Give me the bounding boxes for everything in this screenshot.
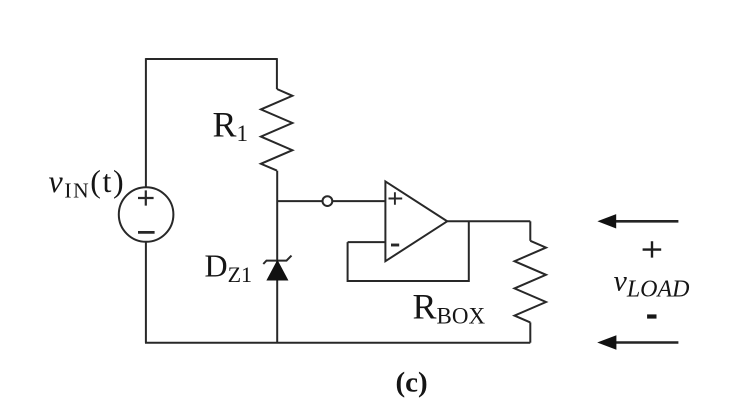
wire left vertical lower bbox=[145, 242, 147, 343]
zener diode DZ1 triangle bbox=[267, 261, 287, 280]
wire RBOX top stub bbox=[529, 221, 531, 241]
wire op-amp output bbox=[447, 220, 530, 222]
wire R1 top stub bbox=[276, 58, 278, 89]
svg-text:R1: R1 bbox=[213, 104, 249, 146]
svg-text:(c): (c) bbox=[396, 367, 428, 399]
wire feedback loop bbox=[348, 221, 469, 281]
voltage source plus sign bbox=[138, 190, 154, 205]
wire top rail bbox=[146, 58, 277, 60]
label load minus bbox=[647, 314, 656, 318]
svg-text:RBOX: RBOX bbox=[413, 287, 486, 329]
wire RBOX bottom stub bbox=[529, 322, 531, 342]
resistor RBOX zigzag bbox=[515, 241, 547, 323]
wire left vertical upper bbox=[145, 58, 147, 187]
label load plus bbox=[643, 241, 662, 257]
svg-text:vIN(t): vIN(t) bbox=[49, 163, 126, 203]
op-amp minus input symbol bbox=[391, 244, 399, 247]
voltage source minus sign bbox=[138, 231, 155, 234]
node open circle bbox=[323, 196, 333, 206]
svg-text:DZ1: DZ1 bbox=[205, 247, 253, 287]
wire node junction horizontal bbox=[277, 200, 322, 202]
load arrow bottom bbox=[597, 335, 678, 349]
voltage source VIN circle bbox=[119, 187, 174, 242]
wire zener branch vertical bbox=[276, 171, 278, 343]
wire op-amp minus input bbox=[348, 241, 386, 243]
wire bottom rail bbox=[145, 342, 530, 344]
wire node to op-amp plus input bbox=[332, 200, 385, 202]
op-amp plus input symbol bbox=[389, 192, 403, 205]
svg-text:vLOAD: vLOAD bbox=[614, 264, 690, 302]
zener diode DZ1 cathode bar bbox=[263, 256, 291, 264]
op-amp U1 triangle bbox=[385, 181, 447, 261]
load arrow top bbox=[597, 214, 678, 228]
resistor R1 zigzag bbox=[261, 89, 293, 171]
